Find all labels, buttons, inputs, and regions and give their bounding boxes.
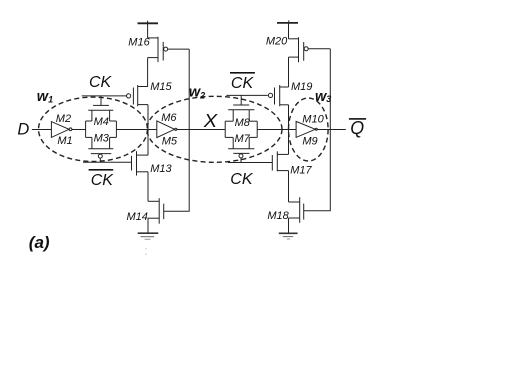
transistor pair M7/M8 transmission gate bbox=[225, 95, 257, 162]
op-amp U3 inverter M9/M10 bbox=[296, 113, 324, 147]
node w1 boundary ellipse bbox=[39, 97, 148, 161]
node CKbar label left bbox=[89, 169, 115, 189]
wire D input bbox=[32, 129, 52, 131]
transistor pair M3/M4 transmission gate bbox=[86, 96, 117, 162]
svg-text:M18: M18 bbox=[267, 210, 289, 222]
transistor M19 bbox=[268, 81, 312, 106]
transistor M15 bbox=[127, 81, 173, 106]
svg-text:M3: M3 bbox=[94, 133, 110, 145]
transistor M13 bbox=[132, 151, 173, 175]
svg-text:M16: M16 bbox=[128, 37, 150, 49]
wire M20 source to M19 bbox=[288, 57, 290, 87]
wire CK to M17 gate bbox=[228, 162, 272, 164]
svg-text:M2: M2 bbox=[56, 113, 71, 125]
wire TG2 output to inverter3 bbox=[257, 129, 296, 131]
wire M16 gate to feedback bbox=[168, 48, 190, 50]
svg-text:M9: M9 bbox=[302, 136, 317, 148]
wire TG1 output to inverter2 bbox=[116, 129, 156, 131]
svg-text:M4: M4 bbox=[94, 116, 109, 128]
wire CKbar to M19 gate bbox=[226, 94, 267, 96]
svg-text:M13: M13 bbox=[150, 163, 172, 175]
wire CK to M15 gate bbox=[82, 95, 127, 97]
svg-text:CK: CK bbox=[89, 74, 113, 91]
wire M17 source to M18 bbox=[288, 171, 290, 202]
node Qbar bbox=[349, 118, 366, 138]
node w2 boundary ellipse bbox=[147, 96, 282, 162]
wire inverter3 output to Qbar bbox=[317, 129, 346, 131]
svg-text:M15: M15 bbox=[150, 81, 172, 93]
wire node X bbox=[177, 129, 225, 131]
svg-text:D: D bbox=[17, 120, 29, 138]
power VDD left bbox=[138, 21, 159, 38]
transistor M14 bbox=[127, 198, 164, 224]
wire M14 gate feedback to node X bbox=[164, 49, 190, 211]
wire M19 drain to M17 drain bbox=[288, 105, 290, 155]
transistor M18 bbox=[267, 197, 303, 223]
power VDD right bbox=[277, 20, 298, 39]
svg-text:M10: M10 bbox=[302, 113, 324, 125]
wire M20 gate to feedback bbox=[308, 48, 330, 50]
svg-text:w3: w3 bbox=[315, 89, 331, 105]
svg-text:M20: M20 bbox=[266, 36, 288, 48]
wire M18 gate feedback to Qbar bbox=[304, 49, 331, 211]
svg-text:M17: M17 bbox=[290, 164, 312, 176]
wire M15 drain to M13 drain bbox=[147, 105, 149, 156]
svg-text:M8: M8 bbox=[235, 117, 251, 129]
svg-text:M5: M5 bbox=[162, 135, 178, 147]
wire CKbar to M13 gate bbox=[83, 161, 132, 163]
op-amp U1 inverter M1/M2 bbox=[51, 113, 72, 147]
svg-text:CK: CK bbox=[91, 172, 115, 189]
svg-text:w1: w1 bbox=[37, 89, 53, 105]
svg-text:CK: CK bbox=[230, 171, 254, 188]
wire inverter1 output bbox=[72, 129, 86, 131]
svg-text:M6: M6 bbox=[161, 112, 177, 124]
wire M16 source to M15 bbox=[147, 58, 149, 87]
transistor M17 bbox=[272, 151, 312, 176]
svg-text:(a): (a) bbox=[29, 233, 50, 252]
op-amp U2 inverter M5/M6 bbox=[157, 112, 178, 147]
node CKbar label middle bbox=[230, 72, 255, 92]
transistor M20 bbox=[266, 36, 308, 63]
transistor M16 bbox=[128, 37, 167, 63]
svg-text:Q: Q bbox=[350, 118, 364, 138]
svg-text:X: X bbox=[203, 111, 219, 131]
ground left bbox=[138, 218, 159, 255]
svg-text:M1: M1 bbox=[57, 135, 72, 147]
node w3 boundary ellipse bbox=[289, 98, 329, 161]
wire M13 source to M14 bbox=[147, 172, 149, 202]
svg-text:M7: M7 bbox=[235, 133, 251, 145]
svg-text:M14: M14 bbox=[127, 211, 148, 223]
svg-text:w2: w2 bbox=[189, 84, 205, 100]
svg-text:CK: CK bbox=[231, 75, 255, 92]
svg-text:M19: M19 bbox=[291, 81, 312, 93]
ground right bbox=[279, 218, 298, 239]
